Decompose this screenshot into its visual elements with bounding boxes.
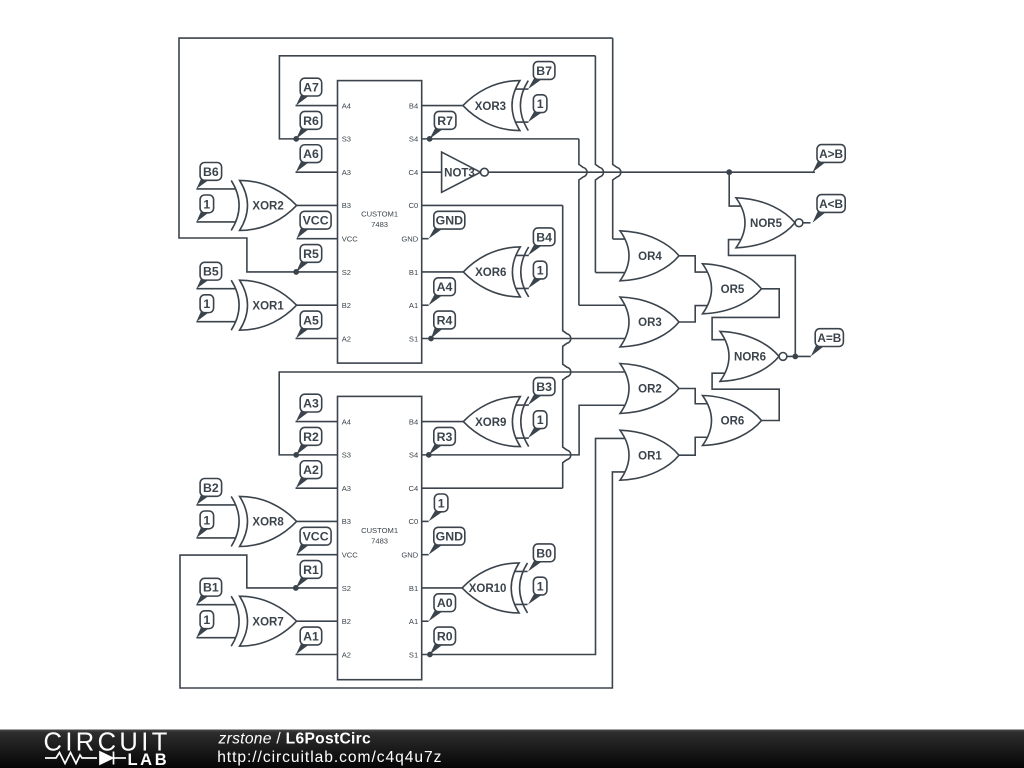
wire C4-top pin to NOT3 input [422,171,442,173]
svg-text:B3: B3 [342,517,351,526]
svg-text:A1: A1 [409,301,418,310]
svg-text:A>B: A>B [819,147,843,161]
svg-text:XOR7: XOR7 [252,616,283,628]
wire outer loop down to OR4 upper input [613,38,621,239]
svg-text:C0: C0 [408,517,418,526]
svg-text:1: 1 [203,197,210,211]
junction R2 on S3-bottom [293,452,299,458]
CircuitLab logo resistor-diode symbol [45,752,126,765]
wire A1-bottom stub (A0 net) [422,620,429,622]
svg-text:B4: B4 [409,417,418,426]
wire C0-bottom stub (logic 1) [422,520,429,522]
label A0 (net) [429,594,456,621]
svg-text:OR2: OR2 [638,384,662,396]
svg-text:A3: A3 [342,168,351,177]
label VCC (upper) [297,211,332,238]
svg-text:S4: S4 [409,135,418,144]
svg-text:A4: A4 [342,417,351,426]
svg-text:OR5: OR5 [721,284,745,296]
wire XOR8 lower input stub [196,537,235,539]
svg-text:B2: B2 [342,301,351,310]
svg-text:S1: S1 [409,650,418,659]
svg-text:A3: A3 [342,484,351,493]
xor gate XOR1 [231,280,296,330]
svg-text:1: 1 [537,97,544,111]
svg-text:A1: A1 [409,617,418,626]
label A6 [296,145,322,172]
svg-text:A2: A2 [303,463,319,477]
label B1 (XOR7 input) [196,578,221,604]
svg-text:S1: S1 [409,334,418,343]
wire A2-top pin (A5 net) [296,337,338,339]
label A2 (net) [296,461,322,488]
svg-text:XOR3: XOR3 [475,101,506,113]
wire XOR1 output to B2-top pin [297,304,338,306]
label B0 (XOR10 input) [528,544,555,572]
wire A2-bottom pin (A1 net) [296,653,338,655]
label A5 [296,311,322,338]
wire A>B branch down to NOR5 upper input [729,172,742,206]
label A>B output [813,145,846,173]
svg-text:S3: S3 [342,135,351,144]
footer bar [0,730,1024,768]
svg-text:A2: A2 [342,334,351,343]
svg-text:VCC: VCC [303,530,329,544]
wire XOR10 upper input stub [514,570,528,572]
xor gate XOR10 [462,563,527,613]
svg-text:OR4: OR4 [638,251,662,263]
wire A3-bottom pin (A2 net) [296,487,338,489]
label B4 (XOR6 input) [528,228,555,256]
svg-text:B4: B4 [536,230,552,244]
wire XOR9 lower input stub [515,437,529,439]
wire S4-top down to OR3 upper input [579,139,587,305]
junction R4 on S1-top [428,336,434,342]
svg-text:OR6: OR6 [721,416,745,428]
wire OR6 output to NOR6 lower input [712,373,779,420]
svg-text:R5: R5 [303,247,319,261]
svg-text:A3: A3 [303,397,319,411]
wire A1-top stub (A4 net) [422,304,429,306]
svg-text:1: 1 [203,513,210,527]
label GND (lower) [429,527,465,554]
label A4 (net) [429,278,456,305]
wire XOR6 lower input stub [515,287,529,289]
svg-text:B1: B1 [203,581,219,595]
svg-text:GND: GND [436,530,463,544]
wire XOR1 upper input stub [196,288,235,290]
inverter NOT3 [442,152,489,192]
junction R3 on S4-bottom [426,452,432,458]
wire carry vertical C0-top down to C4-bottom [563,205,571,488]
junction node A>B to NOR5 [726,169,732,175]
svg-text:XOR6: XOR6 [475,267,506,279]
svg-text:A5: A5 [303,313,319,327]
label B3 (XOR9 input) [528,378,555,406]
wire XOR7 lower input stub [196,637,235,639]
svg-text:A6: A6 [303,147,319,161]
svg-text:B6: B6 [203,165,219,179]
svg-text:1: 1 [537,579,544,593]
svg-text:B7: B7 [536,64,552,78]
or gate OR1 [620,430,679,480]
svg-text:1: 1 [203,297,210,311]
svg-text:B5: B5 [203,265,219,279]
svg-text:R7: R7 [437,114,453,128]
svg-text:7483: 7483 [371,536,388,545]
label 1 (XOR9 input) [528,411,547,438]
xor gate XOR7 [231,596,296,646]
svg-text:1: 1 [537,263,544,277]
svg-text:1: 1 [438,496,445,510]
or gate OR4 [620,231,679,281]
xor gate XOR9 [463,397,528,447]
label B7 (XOR3 input) [528,62,555,90]
wire OR4 output to OR5 upper input [679,256,709,272]
svg-text:XOR8: XOR8 [252,517,284,529]
svg-text:VCC: VCC [303,214,329,228]
svg-text:S2: S2 [342,268,351,277]
label R7 [430,111,456,138]
label B5 (XOR1 input) [196,262,221,288]
svg-text:R1: R1 [303,563,319,577]
svg-text:B1: B1 [409,584,418,593]
wire XOR7 upper input stub [196,604,235,606]
junction R1 on S2-bottom [293,585,299,591]
svg-text:NOR6: NOR6 [734,352,766,364]
or gate OR3 [620,297,679,347]
svg-text:NOR5: NOR5 [750,218,783,230]
wire C0-top to C4-bottom [422,204,563,206]
xor gate XOR6 [463,247,528,297]
wire XOR10 output to B1-bottom pin [422,587,462,589]
wire XOR3 upper input stub [515,88,529,90]
junction R6 on S3-top [293,136,299,142]
svg-text:A7: A7 [303,81,319,95]
or gate OR6 [703,396,762,446]
wire B4-top pin to XOR3 output [422,105,463,107]
wire XOR7 output to B2-bottom pin [297,620,338,622]
label 1 (XOR8 input) [196,511,213,538]
label A<B output [813,195,846,223]
svg-text:VCC: VCC [342,550,359,559]
label A=B output [811,329,844,357]
wire A4-bottom pin (A3 net) [296,421,338,423]
wire S4-bottom / R3 net to OR2 lower input [422,405,626,455]
nor gate NOR6 [720,331,787,381]
wire XOR6 output to B1-top pin [422,271,464,273]
wire VCC-top stub [297,238,338,240]
svg-text:CUSTOM1: CUSTOM1 [361,210,398,219]
svg-text:A4: A4 [437,280,453,294]
xor gate XOR8 [231,496,296,546]
IC CUSTOM1 7483 (lower adder U2) [338,396,422,679]
wire outer loop into OR4 upper input [613,238,626,240]
svg-text:R3: R3 [437,430,453,444]
wire XOR2 upper input stub [196,188,235,190]
svg-text:B2: B2 [342,617,351,626]
wire A=B branch up to NOR5 lower input [729,240,796,357]
wire A3-top pin (A6 net) [296,171,338,173]
wire XOR9 upper input stub [515,404,529,406]
wire C4-bottom pin [422,487,563,489]
svg-text:R2: R2 [303,430,319,444]
svg-text:S4: S4 [409,451,418,460]
svg-text:B2: B2 [203,481,219,495]
label 1 (XOR2 input) [196,195,213,222]
wire S3-bottom / R2 net to OR2 upper input [279,372,626,455]
wire OR2 output to OR6 upper input [679,389,709,404]
wire S1-bottom / R0 net to OR1 upper input [422,438,626,654]
svg-text:B4: B4 [409,101,418,110]
or gate OR2 [620,364,679,414]
label R0 [430,627,456,654]
wire S3-top / R6 net loop to OR4 lower input [279,56,595,139]
label 1 (C0-bottom) [429,494,448,521]
wire OR1 output to OR6 lower input [679,437,709,455]
label R2 [296,427,322,454]
svg-text:XOR2: XOR2 [252,201,283,213]
svg-text:OR3: OR3 [638,317,662,329]
svg-text:GND: GND [436,214,463,228]
wire A4-top pin (A7 net) [296,105,338,107]
svg-text:XOR1: XOR1 [252,300,284,312]
label R5 [296,245,322,272]
wire B4-bottom pin to XOR9 output [422,421,464,423]
svg-text:GND: GND [401,234,418,243]
wire OR5 output to NOR6 upper input [712,289,779,340]
junction R0 on S1-bottom [427,652,433,658]
label VCC (lower) [297,527,332,554]
wire XOR2 output to B3-top pin [297,204,338,206]
svg-text:R0: R0 [437,629,453,643]
svg-text:S3: S3 [342,451,351,460]
svg-text:LAB: LAB [128,751,170,768]
wire S2-bottom / R1 net to bottom loop and OR1 lower input [180,472,626,688]
svg-text:1: 1 [537,413,544,427]
svg-text:1: 1 [203,613,210,627]
label R3 [429,427,456,454]
wire S3-loop into OR4 lower input [595,272,626,274]
junction node A=B to NOR5 [792,354,798,360]
label B6 (XOR2 input) [196,163,221,189]
svg-text:C4: C4 [408,484,418,493]
label 1 (XOR6 input) [528,261,547,288]
svg-text:A=B: A=B [817,331,841,345]
svg-text:OR1: OR1 [638,450,662,462]
svg-text:B3: B3 [536,380,552,394]
label R6 [296,111,322,138]
wire XOR3 lower input stub [515,121,529,123]
wire S4-top into OR3 upper input [579,304,626,306]
svg-text:NOT3: NOT3 [444,167,475,179]
wire NOR5 output to A<B [803,222,811,224]
junction R7 on S4-top [427,136,433,142]
svg-text:B3: B3 [342,201,351,210]
svg-text:XOR9: XOR9 [475,417,506,429]
svg-text:GND: GND [401,550,418,559]
nor gate NOR5 [736,198,803,248]
svg-text:A1: A1 [303,629,319,643]
label 1 (XOR10 input) [528,577,547,604]
wire S4-top / R7 net [422,138,579,140]
junction R5 on S2-top [293,269,299,275]
svg-text:zrstone / L6PostCirc: zrstone / L6PostCirc [218,731,372,748]
svg-text:C4: C4 [408,168,418,177]
svg-text:CUSTOM1: CUSTOM1 [361,526,398,535]
label R1 [296,561,322,588]
svg-text:S2: S2 [342,584,351,593]
svg-text:A4: A4 [342,101,351,110]
label B2 (XOR8 input) [196,479,221,505]
label A7 [296,78,322,105]
svg-text:A<B: A<B [819,197,843,211]
label R4 [431,311,455,338]
label 1 (XOR1 input) [196,295,213,322]
label A1 (net) [296,627,322,654]
label 1 (XOR7 input) [196,611,213,638]
svg-text:7483: 7483 [371,220,388,229]
svg-text:B1: B1 [409,268,418,277]
wire GND-top stub [422,238,429,240]
IC CUSTOM1 7483 (upper adder U1) [338,81,422,364]
svg-text:R6: R6 [303,114,319,128]
wire XOR1 lower input stub [196,321,235,323]
label GND (upper) [429,211,465,238]
or gate OR5 [703,264,762,314]
svg-text:http://circuitlab.com/c4q4u7z: http://circuitlab.com/c4q4u7z [217,749,442,766]
wire XOR6 upper input stub [515,254,529,256]
label A3 (net) [296,394,322,421]
wire NOR6 output to A=B [787,355,811,357]
xor gate XOR3 [463,81,528,131]
svg-text:A0: A0 [437,596,453,610]
wire vertical S3-top loop down to OR4 lower input [595,56,603,273]
label 1 (XOR3 input) [528,95,547,122]
svg-text:C0: C0 [408,201,418,210]
wire XOR10 lower input stub [514,603,528,605]
svg-text:A2: A2 [342,650,351,659]
svg-text:B0: B0 [536,546,552,560]
wire XOR8 upper input stub [196,504,235,506]
wire NOT3 output to A>B [488,171,815,173]
svg-text:R4: R4 [437,313,453,327]
svg-text:XOR10: XOR10 [469,583,507,595]
wire GND-bottom stub [422,554,429,556]
wire S2-top / R5 net to outer loop [179,38,613,272]
wire XOR2 lower input stub [196,221,235,223]
wire S1-top / R4 net to OR3 lower input [422,337,626,339]
svg-text:VCC: VCC [342,234,359,243]
wire VCC-bottom stub [297,554,338,556]
wire XOR8 output to B3-bottom pin [297,520,338,522]
wire OR3 output to OR5 lower input [679,306,709,322]
xor gate XOR2 [231,180,296,230]
